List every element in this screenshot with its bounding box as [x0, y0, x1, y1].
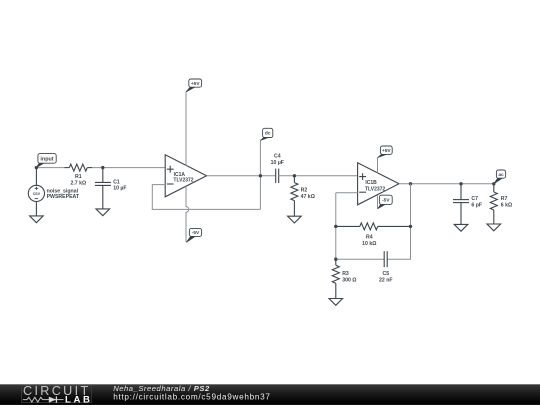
- svg-text:10 kΩ: 10 kΩ: [362, 241, 376, 247]
- svg-text:TLV2372: TLV2372: [173, 177, 193, 183]
- svg-text:IC1B: IC1B: [365, 180, 377, 186]
- svg-text:C4: C4: [274, 154, 281, 160]
- lead R4 left: [336, 225, 360, 227]
- junction C4/R2: [293, 174, 296, 177]
- op-amp U1 IC1A: [165, 155, 206, 197]
- node input junction dot: [35, 166, 38, 169]
- lead source top: [35, 168, 37, 186]
- capacitor C7: [453, 200, 469, 203]
- resistor R1: [69, 164, 87, 171]
- junction R3/C5: [334, 258, 337, 261]
- flag dc: [260, 128, 272, 140]
- op-amp U2 IC1B: [358, 163, 399, 205]
- junction R4 left: [334, 225, 337, 228]
- ground under R2: [288, 216, 302, 223]
- junction output1/feedback: [259, 174, 262, 177]
- svg-text:R3: R3: [342, 271, 349, 277]
- junction R4 right: [409, 225, 412, 228]
- svg-text:input: input: [40, 156, 53, 162]
- ground under C7: [454, 224, 468, 231]
- capacitor C4: [276, 169, 279, 183]
- svg-text:47 kΩ: 47 kΩ: [301, 194, 315, 200]
- lead R1 right: [87, 167, 92, 169]
- svg-text:C7: C7: [471, 196, 478, 202]
- lead R4 right: [378, 225, 411, 227]
- flag input: [36, 154, 56, 168]
- svg-text:6 kΩ: 6 kΩ: [501, 202, 512, 208]
- ground under C1: [96, 209, 110, 216]
- svg-text:ac: ac: [498, 173, 504, 178]
- lead R3 top: [335, 259, 337, 265]
- lead C7 to ground: [460, 203, 462, 225]
- wire op-amp2 output: [399, 183, 494, 185]
- lead R3 to ground: [335, 283, 337, 298]
- lead R2 to ground: [293, 201, 295, 217]
- wire feedback right vertical to C5: [387, 184, 410, 259]
- svg-text:-5V: -5V: [382, 198, 390, 204]
- ground under R7: [487, 224, 501, 231]
- svg-text:C5: C5: [382, 271, 389, 277]
- resistor R4: [360, 223, 378, 230]
- svg-text:LAB: LAB: [65, 395, 93, 405]
- wire +5V supply op-amp 1: [185, 92, 187, 166]
- wire op-amp1 output to C4: [207, 175, 276, 177]
- wire +5V supply op-amp 2: [377, 158, 379, 174]
- wire C5 to left vertical: [336, 258, 384, 260]
- resistor R2: [291, 183, 298, 201]
- CircuitLab logo: [22, 384, 93, 405]
- resistor R7: [490, 192, 497, 210]
- wire inverting input stub op-amp2: [336, 192, 358, 194]
- svg-text:2.7 kΩ: 2.7 kΩ: [70, 181, 86, 187]
- lead R2 top: [293, 176, 295, 183]
- source noise_signal CSV: [28, 185, 44, 201]
- svg-text:CSV: CSV: [33, 192, 41, 196]
- flag ac: [494, 170, 506, 184]
- ground under R3: [329, 299, 343, 306]
- svg-text:10 µF: 10 µF: [113, 186, 126, 192]
- wire feedback op-amp1 to inverting input: [152, 185, 260, 210]
- svg-text:22 nF: 22 nF: [379, 277, 393, 283]
- svg-text:R7: R7: [501, 196, 508, 202]
- svg-text:R4: R4: [366, 234, 373, 240]
- svg-text:C1: C1: [113, 179, 120, 185]
- svg-text:TLV2372: TLV2372: [365, 186, 385, 192]
- svg-text:R1: R1: [75, 174, 82, 180]
- capacitor C5: [384, 251, 387, 267]
- flag -5V op-amp2: [378, 195, 392, 209]
- svg-text:R2: R2: [301, 187, 308, 193]
- wire dc flag / feedback vertical: [259, 140, 261, 209]
- svg-text:+5V: +5V: [382, 148, 391, 154]
- lead C7 top: [460, 184, 462, 200]
- ground under source: [30, 216, 44, 223]
- wire feedback left vertical: [335, 193, 337, 259]
- wire input node to R1: [36, 167, 64, 169]
- lead R7 to ground: [493, 210, 495, 224]
- lead C1 top: [102, 168, 104, 183]
- flag +5V op-amp2: [378, 146, 393, 158]
- wire R1 to op-amp + input: [92, 167, 165, 169]
- wire C4 to op-amp2 + input: [279, 175, 358, 177]
- junction output2/feedback: [409, 182, 412, 185]
- junction C7: [459, 182, 462, 185]
- wire -5V supply op-amp 1 (hop over feedback): [186, 186, 189, 242]
- junction node R1/C1: [101, 166, 104, 169]
- lead R7 top: [493, 184, 495, 192]
- svg-text:+5V: +5V: [191, 81, 200, 87]
- flag +5V op-amp1: [186, 79, 202, 92]
- svg-text:PWSREPEAT: PWSREPEAT: [47, 194, 80, 200]
- lead source to ground: [35, 202, 37, 216]
- svg-text:-5V: -5V: [192, 230, 200, 236]
- flag -5V op-amp1: [186, 228, 201, 242]
- lead R1 left: [65, 167, 70, 169]
- svg-text:300 Ω: 300 Ω: [342, 277, 356, 283]
- capacitor C1: [95, 182, 111, 185]
- lead C1 to ground: [102, 185, 104, 209]
- node ac junction dot: [492, 182, 495, 185]
- svg-text:6 pF: 6 pF: [471, 202, 482, 208]
- resistor R3: [332, 265, 339, 283]
- svg-text:http://circuitlab.com/c59da9we: http://circuitlab.com/c59da9wehbn37: [113, 392, 270, 401]
- svg-text:dc: dc: [265, 131, 271, 137]
- wire -5V supply op-amp 2: [377, 195, 379, 209]
- svg-text:10 µF: 10 µF: [271, 160, 284, 166]
